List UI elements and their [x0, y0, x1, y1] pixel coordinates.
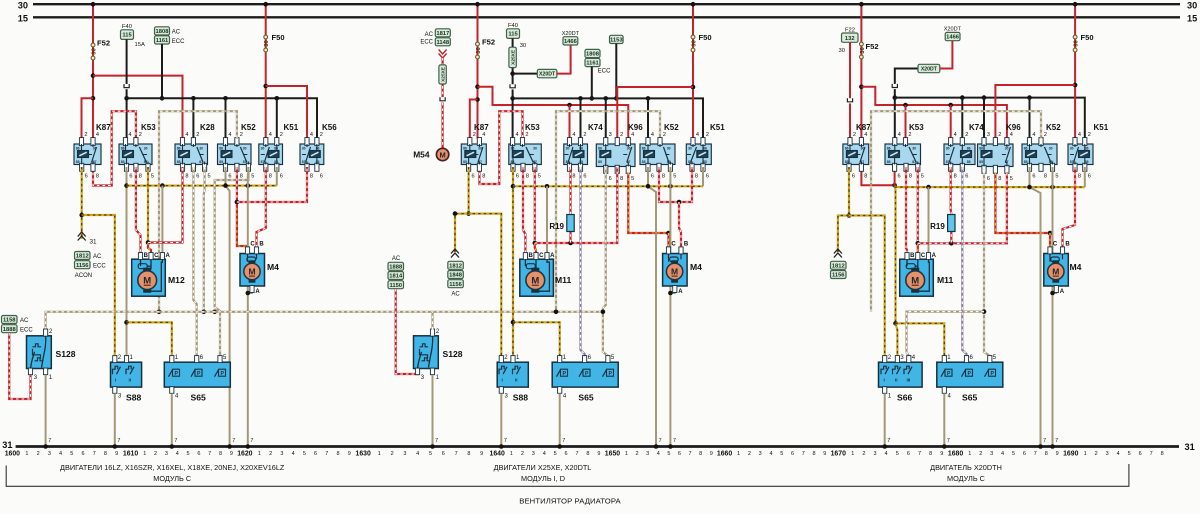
- svg-text:1: 1: [737, 451, 740, 457]
- switch S88: [497, 355, 528, 403]
- svg-text:5: 5: [70, 451, 73, 457]
- svg-text:1161: 1161: [586, 61, 599, 67]
- svg-text:86: 86: [76, 147, 80, 151]
- wire to M12 pinC: [148, 243, 151, 254]
- node bus31 connection: [668, 444, 673, 449]
- wire M4M pinA: [670, 287, 674, 294]
- svg-text:30: 30: [261, 147, 265, 151]
- wire M4L pinA: [248, 287, 252, 294]
- connector 1158 left: [2, 316, 18, 324]
- node F52L branch1: [91, 73, 96, 78]
- relay K87: [74, 123, 111, 180]
- node X20DT branch: [510, 71, 515, 76]
- connector 1888 middle: [388, 262, 404, 270]
- switch S66: [879, 355, 923, 403]
- node M11R pinC junction: [916, 241, 921, 246]
- svg-text:1812: 1812: [76, 254, 89, 260]
- svg-text:1: 1: [1084, 451, 1087, 457]
- svg-text:5: 5: [554, 451, 557, 457]
- svg-text:3: 3: [609, 132, 612, 138]
- svg-text:1: 1: [968, 451, 971, 457]
- svg-text:2: 2: [979, 451, 982, 457]
- svg-text:30: 30: [533, 147, 537, 151]
- svg-text:4: 4: [696, 132, 699, 138]
- svg-text:5: 5: [303, 451, 306, 457]
- wire 1153M down: [615, 44, 617, 99]
- svg-text:I: I: [502, 378, 503, 383]
- connector 1156 middle: [448, 280, 464, 288]
- node bus31 connection: [43, 444, 48, 449]
- fuse F52 right: [860, 42, 864, 46]
- svg-text:4: 4: [954, 132, 957, 138]
- svg-text:2: 2: [748, 451, 751, 457]
- svg-text:X25XE: X25XE: [510, 49, 516, 65]
- svg-text:8: 8: [864, 174, 867, 180]
- svg-text:4: 4: [1078, 132, 1081, 138]
- svg-text:3: 3: [280, 451, 283, 457]
- wire S66 pin1 to bus31: [884, 393, 886, 445]
- connector on F40L wire: [123, 84, 129, 89]
- svg-text:30: 30: [243, 147, 247, 151]
- wire K96R pin6 to S65R pin5: [984, 173, 990, 356]
- motor M4: [663, 242, 703, 296]
- svg-text:2: 2: [196, 132, 199, 138]
- wire busL to K28 pin2: [192, 98, 194, 138]
- svg-text:6: 6: [706, 174, 709, 180]
- svg-text:R19: R19: [549, 222, 564, 231]
- wire to M4 pinC: [237, 202, 248, 247]
- connector 1808 left: [155, 27, 170, 35]
- svg-text:86: 86: [511, 147, 515, 151]
- svg-text:30: 30: [520, 43, 526, 49]
- wire S128M pin2 up to striped bus: [431, 312, 433, 330]
- node M4L pinA tap: [246, 291, 251, 296]
- node bus31 connection: [246, 444, 251, 449]
- bus 31: [16, 445, 1179, 448]
- svg-text:6: 6: [314, 451, 317, 457]
- svg-text:87: 87: [566, 160, 570, 164]
- wire K28L pin8 to M12C node: [148, 167, 183, 243]
- svg-text:3: 3: [165, 451, 168, 457]
- svg-text:4: 4: [543, 451, 546, 457]
- svg-text:K51: K51: [1094, 123, 1109, 132]
- svg-text:2: 2: [391, 451, 394, 457]
- motor M11: [900, 253, 954, 297]
- wire K52L pin6 to bus31: [226, 167, 230, 446]
- svg-text:6: 6: [280, 174, 283, 180]
- yellow bus under relays left: [127, 185, 277, 187]
- wire to S66 pin3: [896, 323, 898, 355]
- wire to S88M pin2: [455, 214, 501, 356]
- svg-text:5: 5: [208, 174, 211, 180]
- svg-text:1650: 1650: [605, 451, 620, 458]
- svg-text:7: 7: [947, 438, 950, 444]
- wire to S88L pin2: [82, 215, 115, 356]
- node busM K52: [646, 96, 651, 101]
- svg-text:4: 4: [516, 132, 519, 138]
- svg-text:4: 4: [269, 132, 272, 138]
- svg-text:6: 6: [85, 174, 88, 180]
- svg-text:86: 86: [316, 147, 320, 151]
- svg-text:30: 30: [302, 147, 306, 151]
- svg-text:86: 86: [177, 147, 181, 151]
- svg-text:7: 7: [1055, 438, 1058, 444]
- svg-text:1814: 1814: [389, 274, 403, 280]
- node 1161M on bus: [590, 96, 595, 101]
- motor M4: [1044, 242, 1082, 296]
- svg-text:K56: K56: [322, 123, 337, 132]
- svg-text:1812: 1812: [832, 263, 845, 269]
- svg-text:8: 8: [998, 176, 1001, 182]
- wire to S65M pin1: [513, 322, 560, 356]
- svg-text:S66: S66: [897, 393, 913, 403]
- wire to M11R pinC: [917, 243, 919, 253]
- svg-text:4: 4: [885, 451, 888, 457]
- wire busM to K52M pin4: [647, 98, 649, 138]
- svg-text:7: 7: [659, 438, 662, 444]
- node busR K96: [982, 95, 987, 100]
- svg-text:86: 86: [579, 147, 583, 151]
- switch S65: [937, 355, 1003, 403]
- svg-text:2: 2: [965, 132, 968, 138]
- svg-text:87: 87: [478, 160, 482, 164]
- wire F50 left feed: [265, 4, 267, 138]
- node 1161L on black bus: [160, 96, 165, 101]
- switch S65: [552, 355, 618, 403]
- svg-text:3: 3: [532, 451, 535, 457]
- svg-text:1680: 1680: [948, 451, 963, 458]
- switch S88: [111, 355, 142, 403]
- wire K52R pin6 to bus31: [1030, 167, 1041, 446]
- svg-text:AC: AC: [93, 254, 102, 260]
- svg-text:M4: M4: [1070, 262, 1082, 272]
- wire S128L pin1 to bus31: [45, 375, 47, 445]
- wire K52L pin5 to S65L pin5: [215, 167, 249, 356]
- wire K87R pin6 down: [848, 167, 850, 216]
- svg-text:86: 86: [845, 147, 849, 151]
- svg-text:7: 7: [673, 438, 676, 444]
- node M4R pinC: [1048, 231, 1053, 236]
- svg-text:P: P: [947, 371, 951, 377]
- wire S65M pin4 to bus31: [559, 393, 561, 445]
- svg-text:8: 8: [1045, 451, 1048, 457]
- fuse F40 middle box: [507, 29, 520, 39]
- node tan line on yellow bus left: [246, 183, 251, 188]
- bus 30: [33, 3, 1180, 5]
- svg-text:4: 4: [898, 132, 901, 138]
- connector on F40M wire: [509, 84, 515, 89]
- svg-text:1156: 1156: [76, 263, 89, 269]
- svg-text:5: 5: [921, 174, 924, 180]
- node red105 K74M: [567, 103, 572, 108]
- node K52M pin6 on yellow bus: [646, 184, 651, 189]
- connector 1848 middle: [448, 271, 464, 279]
- svg-text:7: 7: [1034, 451, 1037, 457]
- black bus right to K51R pin2: [895, 98, 1085, 139]
- svg-text:2: 2: [84, 132, 87, 138]
- svg-text:5: 5: [896, 451, 899, 457]
- relay K28: [175, 123, 215, 180]
- svg-text:B: B: [259, 242, 264, 248]
- svg-text:85: 85: [579, 160, 583, 164]
- connector 1150 middle: [388, 281, 404, 289]
- node M11 pinA tap: [545, 184, 550, 189]
- svg-text:2: 2: [663, 132, 666, 138]
- node M4M pinB: [677, 200, 682, 205]
- svg-text:30: 30: [91, 48, 97, 54]
- wire F50 middle feed: [692, 4, 694, 138]
- svg-text:8: 8: [526, 174, 529, 180]
- arrow down M54 feed: [439, 50, 447, 55]
- svg-text:B: B: [144, 253, 149, 259]
- node M11 pinC junction: [533, 241, 538, 246]
- svg-text:K51: K51: [710, 123, 725, 132]
- wire F50R to K96R pin2: [995, 85, 1075, 139]
- svg-text:8: 8: [954, 174, 957, 180]
- relay K87: [461, 123, 489, 180]
- svg-text:115: 115: [122, 33, 132, 39]
- svg-text:2: 2: [1088, 132, 1091, 138]
- svg-text:5: 5: [1128, 451, 1131, 457]
- svg-text:6: 6: [583, 174, 586, 180]
- svg-text:87: 87: [912, 160, 916, 164]
- svg-text:1156: 1156: [449, 282, 462, 288]
- svg-text:4: 4: [310, 132, 313, 138]
- connector 1888 left: [2, 325, 18, 333]
- wire red105 to K74M pin4: [569, 105, 571, 139]
- svg-text:3: 3: [873, 451, 876, 457]
- svg-text:6: 6: [651, 174, 654, 180]
- svg-text:1808: 1808: [156, 29, 170, 35]
- svg-text:8: 8: [586, 451, 589, 457]
- ground arrow middle: [451, 249, 459, 254]
- svg-text:МОДУЛЬ C: МОДУЛЬ C: [153, 474, 191, 483]
- svg-text:30: 30: [1070, 147, 1074, 151]
- node bus31 connection: [227, 444, 232, 449]
- svg-text:5: 5: [780, 451, 783, 457]
- svg-text:5: 5: [1010, 176, 1013, 182]
- node K52R pin6 on yellow bus: [1027, 185, 1032, 190]
- svg-text:8: 8: [695, 174, 698, 180]
- wire red105R to K74R pin4: [950, 105, 952, 139]
- svg-text:R19: R19: [930, 222, 945, 231]
- node busR K52: [1027, 95, 1032, 100]
- node S65M pin1 branch: [511, 320, 516, 325]
- svg-text:3: 3: [646, 451, 649, 457]
- bottom bracket: [6, 464, 1129, 486]
- svg-text:2: 2: [862, 451, 865, 457]
- wire K74R pin6 to S65R pin6: [962, 167, 966, 356]
- svg-text:4: 4: [59, 451, 62, 457]
- svg-text:M11: M11: [555, 275, 571, 285]
- svg-text:K52: K52: [664, 123, 679, 132]
- node 1153M on bus: [614, 96, 619, 101]
- wire K53L pin6 to S88L pin1: [126, 167, 128, 356]
- svg-text:8: 8: [96, 174, 99, 180]
- svg-text:4: 4: [1010, 132, 1013, 138]
- wire 1150M to S128M pin3: [396, 289, 418, 375]
- node F52L branch2: [91, 96, 96, 101]
- svg-text:7: 7: [117, 438, 120, 444]
- svg-text:1640: 1640: [490, 451, 505, 458]
- connector 1812 right: [831, 261, 847, 269]
- svg-text:6: 6: [228, 174, 231, 180]
- svg-text:1808: 1808: [586, 52, 600, 58]
- node F40M on black bus middle: [510, 96, 515, 101]
- connector 1817: [435, 29, 450, 37]
- svg-text:31: 31: [90, 239, 98, 246]
- svg-text:85: 85: [121, 160, 125, 164]
- connector on M54 wire: [439, 97, 445, 102]
- svg-text:M54: M54: [413, 150, 430, 160]
- wire K53M pin5 down: [534, 167, 536, 243]
- wire K51R pin8 to M4R pinB: [1063, 167, 1076, 247]
- svg-text:M11: M11: [937, 275, 953, 285]
- svg-text:2: 2: [583, 132, 586, 138]
- motor M4: [240, 242, 279, 296]
- svg-text:1: 1: [143, 451, 146, 457]
- svg-text:A: A: [166, 253, 171, 259]
- svg-text:A: A: [550, 253, 555, 259]
- wire K96R pin8 to M4R pinC: [995, 173, 1050, 234]
- svg-text:ACON: ACON: [75, 273, 92, 279]
- svg-text:87: 87: [946, 160, 950, 164]
- wire R19R chain to K96R pin5: [918, 173, 1007, 244]
- svg-text:86: 86: [703, 147, 707, 151]
- svg-text:86: 86: [642, 147, 646, 151]
- node busL K51: [275, 96, 280, 101]
- node K87R pin8 K53R pin6: [892, 183, 897, 188]
- node bus31 connection: [882, 444, 887, 449]
- svg-text:6: 6: [678, 451, 681, 457]
- svg-text:30: 30: [199, 147, 203, 151]
- svg-text:85: 85: [703, 160, 707, 164]
- svg-text:M12: M12: [168, 275, 185, 285]
- node bus31 connection: [557, 444, 562, 449]
- svg-text:7: 7: [689, 451, 692, 457]
- svg-text:6: 6: [1032, 174, 1035, 180]
- svg-text:85: 85: [642, 160, 646, 164]
- wire striped to K52M pin2: [556, 111, 660, 312]
- svg-text:2: 2: [525, 132, 528, 138]
- wire to M4M pinB: [679, 202, 681, 247]
- svg-text:2: 2: [521, 451, 524, 457]
- svg-text:7: 7: [887, 438, 890, 444]
- svg-text:6: 6: [898, 174, 901, 180]
- connector 1156 right: [831, 271, 847, 279]
- wire K53M pin6 to S88M pin1: [512, 167, 514, 356]
- svg-text:6: 6: [81, 451, 84, 457]
- svg-text:86: 86: [219, 147, 223, 151]
- svg-text:30: 30: [861, 147, 865, 151]
- svg-text:AC: AC: [425, 32, 434, 38]
- svg-text:1156: 1156: [832, 273, 845, 279]
- svg-text:2: 2: [853, 132, 856, 138]
- fuse F22 box: [842, 33, 859, 42]
- svg-text:86: 86: [274, 147, 278, 151]
- svg-text:3: 3: [48, 451, 51, 457]
- svg-text:1848: 1848: [449, 273, 463, 279]
- wire K96M pin6 to S65M pin5: [603, 167, 608, 356]
- node F40L on black bus: [124, 96, 129, 101]
- wire busR to K74R pin2: [961, 98, 963, 139]
- svg-text:8: 8: [467, 451, 470, 457]
- svg-text:5: 5: [1055, 174, 1058, 180]
- svg-text:2: 2: [269, 451, 272, 457]
- node F52M branch1: [475, 84, 480, 89]
- svg-text:M4: M4: [267, 262, 279, 272]
- node F50R on bus30: [1073, 2, 1078, 7]
- svg-text:5: 5: [187, 451, 190, 457]
- svg-text:5: 5: [151, 174, 154, 180]
- wire F52R red distribution to K96R pin4: [861, 87, 1007, 139]
- node bus31 connection: [1050, 444, 1055, 449]
- wire F50M to K96M pin2: [617, 87, 693, 139]
- svg-text:87: 87: [1005, 160, 1009, 164]
- svg-text:S65: S65: [962, 393, 978, 403]
- svg-text:1660: 1660: [717, 451, 732, 458]
- wire X20DT to 1466 middle: [557, 45, 571, 74]
- svg-text:ДВИГАТЕЛЬ X20DTH: ДВИГАТЕЛЬ X20DTH: [930, 463, 1002, 472]
- node M12 pinC junction: [146, 240, 151, 245]
- svg-text:I: I: [884, 378, 885, 383]
- svg-text:2: 2: [998, 132, 1001, 138]
- svg-text:1: 1: [378, 451, 381, 457]
- svg-text:C: C: [1053, 242, 1058, 248]
- svg-text:9: 9: [823, 451, 826, 457]
- svg-text:M: M: [1052, 266, 1059, 276]
- wire junction down to S66 pin3: [893, 185, 896, 323]
- svg-text:15A: 15A: [135, 42, 145, 48]
- svg-text:1148: 1148: [437, 40, 450, 46]
- wire to S65L pin1: [127, 322, 172, 355]
- svg-text:1817: 1817: [436, 31, 449, 37]
- wire K53L pin5 down: [147, 167, 149, 243]
- node M4M pinA tap: [668, 291, 673, 296]
- svg-text:S128: S128: [56, 349, 76, 359]
- wire K87R pin8 loop: [861, 167, 894, 185]
- node F52M branch2: [475, 97, 480, 102]
- node busL K52: [223, 96, 228, 101]
- black bus left group to K56 pin2: [127, 98, 317, 138]
- svg-text:85: 85: [979, 160, 983, 164]
- svg-text:1670: 1670: [831, 451, 846, 458]
- wire K74R pin8 through R19R: [950, 167, 953, 243]
- black bus middle to K51M pin2: [513, 98, 703, 138]
- node F50M branch: [691, 85, 696, 90]
- node bus31 connection: [170, 444, 175, 449]
- svg-text:1888: 1888: [389, 264, 403, 270]
- svg-text:8: 8: [240, 174, 243, 180]
- svg-text:1: 1: [510, 451, 513, 457]
- svg-text:4: 4: [631, 132, 634, 138]
- node bus31 connection: [499, 444, 504, 449]
- wire K53R pin6 down: [894, 167, 896, 185]
- svg-text:9: 9: [115, 451, 118, 457]
- svg-text:30: 30: [264, 40, 270, 46]
- fuse F50 middle: [691, 35, 695, 39]
- wire busR to K96R pin3: [983, 98, 985, 139]
- svg-text:II: II: [895, 378, 898, 383]
- node y202 left: [235, 200, 240, 205]
- svg-text:6: 6: [791, 451, 794, 457]
- svg-text:6: 6: [197, 451, 200, 457]
- wire F52 left feed: [92, 4, 94, 138]
- svg-text:K53: K53: [525, 123, 540, 132]
- wire 1161M down: [591, 67, 593, 99]
- node arrow tap middle: [453, 211, 458, 216]
- svg-text:S128: S128: [443, 349, 463, 359]
